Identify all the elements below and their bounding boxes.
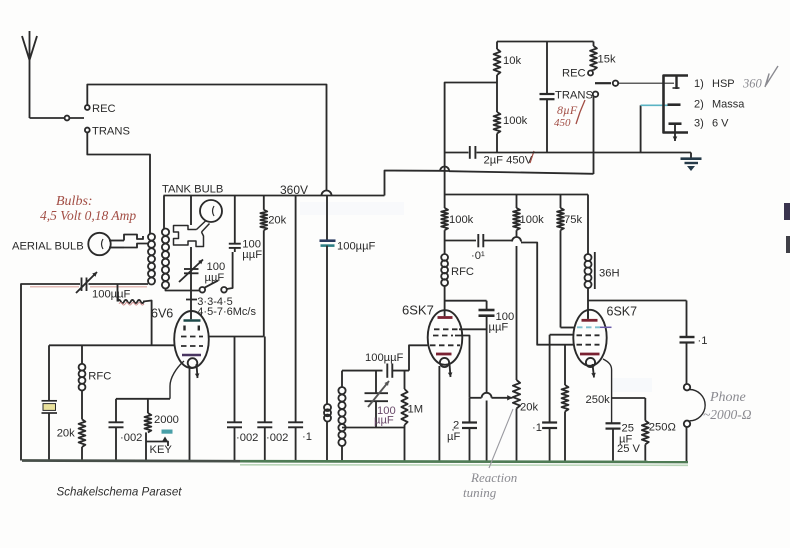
svg-text:REC: REC <box>562 68 586 80</box>
net RX rail <box>445 153 588 209</box>
connector pin 2 <box>668 103 681 106</box>
capacitor .1 osc <box>288 196 312 461</box>
wire screen line 6V6 <box>209 336 264 338</box>
svg-text:REC: REC <box>92 103 116 115</box>
wire 6SK7b cathode <box>603 359 612 423</box>
svg-text:AERIAL BULB: AERIAL BULB <box>12 241 84 253</box>
wire grid top <box>342 370 383 372</box>
junction hump <box>440 167 449 172</box>
svg-text:TRANS: TRANS <box>555 90 593 102</box>
tank coil primary <box>148 234 155 285</box>
edge mark 1 <box>784 203 790 220</box>
svg-text:4,5 Volt 0,18 Amp: 4,5 Volt 0,18 Amp <box>40 208 136 223</box>
resistor 100k det <box>441 208 473 241</box>
svg-text:Bulbs:: Bulbs: <box>56 194 93 209</box>
capacitor .01 coupling <box>445 234 512 262</box>
svg-text:RFC: RFC <box>88 371 111 383</box>
tube 6SK7 second <box>573 305 637 366</box>
6SK7a plate <box>438 310 453 318</box>
aerial bulb holder <box>109 235 148 248</box>
svg-text:75k: 75k <box>564 214 582 226</box>
tank bulb <box>200 200 222 222</box>
edge mark 2 <box>786 236 790 253</box>
resistor 250k <box>562 345 611 461</box>
inductor RFC osc <box>79 345 112 419</box>
6SK7b cathode <box>580 354 600 378</box>
resistor 2000 <box>145 399 179 433</box>
capacitor .1 af <box>532 422 557 461</box>
tank coil secondary <box>162 229 169 289</box>
svg-text:·002: ·002 <box>120 432 142 444</box>
handwritten reaction tuning <box>463 409 517 500</box>
wire massa branch <box>641 105 668 152</box>
wire cathode net <box>116 398 170 400</box>
svg-text:36H: 36H <box>599 268 620 280</box>
wire rail step <box>385 171 441 196</box>
key jack <box>146 430 173 461</box>
switch pole contact <box>65 116 70 121</box>
svg-text:450: 450 <box>554 117 571 129</box>
handwritten phone <box>703 390 752 422</box>
svg-text:·1: ·1 <box>698 335 708 347</box>
svg-text:·0¹: ·0¹ <box>471 250 485 262</box>
6V6 heater arrow <box>195 364 200 378</box>
svg-text:6 V: 6 V <box>712 118 729 130</box>
wire bus left <box>445 152 469 154</box>
inductor grid coil <box>338 371 345 461</box>
wire screen to regen <box>455 336 470 398</box>
phone jack <box>684 384 705 462</box>
connector socket <box>664 76 689 133</box>
svg-text:4·5-7·6Mc/s: 4·5-7·6Mc/s <box>197 306 256 318</box>
wire squiggle junction <box>117 284 119 302</box>
capacitor 100uuF filter <box>320 196 376 405</box>
net 360V rail <box>164 183 385 197</box>
svg-text:15k: 15k <box>598 54 616 66</box>
svg-text:10k: 10k <box>503 55 521 67</box>
inductor tickler <box>324 404 331 461</box>
capacitor 100uuF grid <box>365 352 409 378</box>
band switch <box>200 252 233 293</box>
svg-text:20k: 20k <box>520 402 538 414</box>
wash 1 <box>300 202 404 215</box>
wire rail left end <box>163 196 165 230</box>
svg-text:Phone: Phone <box>709 390 746 405</box>
svg-text:·002: ·002 <box>266 432 288 444</box>
6V6 cathode <box>182 355 201 368</box>
svg-text:100k: 100k <box>449 214 474 226</box>
wire coil to band switch <box>166 289 200 291</box>
label band frequencies <box>197 296 256 318</box>
wire tank bottom <box>342 428 405 461</box>
svg-text:20k: 20k <box>57 428 75 440</box>
resistor 15k <box>590 42 616 71</box>
resistor 20k grid <box>57 419 86 460</box>
wire bus right <box>477 152 692 154</box>
handwritten 360V <box>742 66 778 91</box>
svg-text:̦2: ̦2 <box>452 420 459 432</box>
wire grid2 row2 <box>550 335 574 423</box>
svg-text:3): 3) <box>694 118 704 130</box>
svg-text:KEY: KEY <box>150 444 173 456</box>
6SK7b screen row <box>577 326 612 328</box>
6V6 beam plates <box>185 326 199 331</box>
svg-text:250Ω: 250Ω <box>649 422 676 434</box>
wire REC to top rail <box>87 85 326 191</box>
6SK7b grid rows <box>577 335 600 344</box>
capacitor .1 output <box>680 335 708 384</box>
wire antenna to switch pole <box>30 117 85 119</box>
junction hump 100k2 <box>512 237 521 242</box>
svg-text:HSP: HSP <box>712 78 735 90</box>
tank bulb holder <box>174 221 210 247</box>
capacitor 2uF <box>470 146 534 167</box>
capacitor .002 screen b <box>257 337 288 461</box>
6V6 plate <box>184 319 201 322</box>
variable capacitor 100uuF antenna <box>76 272 131 301</box>
inductor 36H <box>585 195 620 319</box>
capacitor 8uF <box>540 42 586 153</box>
aerial bulb <box>88 233 110 255</box>
wire regen wiper <box>470 393 513 401</box>
label pin3 <box>694 118 729 130</box>
svg-text:100µµF: 100µµF <box>337 241 376 253</box>
capacitor .002 screen a <box>227 337 258 461</box>
svg-text:~2000­-Ω: ~2000­-Ω <box>703 407 752 422</box>
inductor RFC det <box>441 241 474 311</box>
connector pin 1 <box>673 76 680 90</box>
svg-text:100µµF: 100µµF <box>365 352 404 364</box>
crystal <box>42 345 58 460</box>
node REC terminal <box>85 103 116 115</box>
svg-text:2000: 2000 <box>154 414 179 426</box>
capacitor 25uF <box>606 423 641 461</box>
svg-text:·002: ·002 <box>236 432 258 444</box>
svg-text:·1: ·1 <box>302 431 312 443</box>
resistor 20k osc <box>260 196 286 337</box>
resistor 1M <box>401 371 423 428</box>
svg-text:100k: 100k <box>520 214 545 226</box>
switch arm power <box>595 81 674 86</box>
wire 10k junction <box>445 75 497 153</box>
wire suppressor <box>459 328 487 330</box>
svg-text:6SK7: 6SK7 <box>607 305 638 319</box>
label pin1 <box>694 78 735 90</box>
resistor 10k <box>494 42 522 76</box>
wire left edge <box>21 284 80 461</box>
svg-text:8µF: 8µF <box>557 103 578 117</box>
svg-text:360: 360 <box>742 77 763 91</box>
tube 6SK7 first <box>402 303 462 365</box>
wire output line <box>588 301 687 337</box>
svg-text:TANK BULB: TANK BULB <box>162 184 223 196</box>
wire plate bypass <box>445 300 487 302</box>
node REC power <box>562 68 594 80</box>
svg-text:tuning: tuning <box>463 485 497 500</box>
node TRANS terminal <box>85 126 130 138</box>
resistor 250 ohm <box>612 398 676 461</box>
svg-text:20k: 20k <box>268 215 286 227</box>
variable capacitor tank <box>179 260 225 300</box>
resistor 75k <box>557 195 582 328</box>
capacitor 100uuF plate <box>479 301 515 461</box>
svg-text:6SK7: 6SK7 <box>402 303 434 318</box>
label pin2 <box>694 99 745 111</box>
wire 6SK7a cathode ground <box>438 366 440 461</box>
svg-text:360V: 360V <box>280 183 308 197</box>
svg-text:µµF: µµF <box>374 415 394 427</box>
svg-text:µµF: µµF <box>489 322 509 334</box>
svg-text:µF: µF <box>447 431 460 443</box>
svg-text:100µµF: 100µµF <box>92 289 131 301</box>
wire grid to tube1 <box>409 345 428 370</box>
svg-text:TRANS: TRANS <box>92 126 130 138</box>
svg-text:2): 2) <box>694 99 704 111</box>
svg-text:µµF: µµF <box>242 249 262 261</box>
junction 360V <box>322 191 332 196</box>
capacitor 100uuF tank <box>229 196 262 262</box>
svg-text:100k: 100k <box>503 115 528 127</box>
capacitor .2uF <box>447 398 477 461</box>
svg-text:6V6: 6V6 <box>151 307 173 321</box>
svg-text:2µF 450V: 2µF 450V <box>484 155 533 167</box>
node TRANS power <box>555 90 598 175</box>
wire af coupling <box>521 243 574 345</box>
wire TRANS to tank coil <box>87 133 150 234</box>
svg-text:Schakelschema Paraset: Schakelschema Paraset <box>57 486 183 499</box>
wire 6V6 heater to rail <box>189 368 191 461</box>
wire cap to tank coil <box>30 284 148 287</box>
grid squiggle <box>118 300 152 345</box>
6V6 control grid <box>181 345 203 347</box>
svg-text:RFC: RFC <box>451 266 474 278</box>
caption <box>57 486 183 499</box>
svg-text:Reaction: Reaction <box>470 470 517 485</box>
ground <box>681 159 702 171</box>
6SK7a grid rows <box>430 329 460 345</box>
resistor 100k bleeder <box>494 112 528 153</box>
net ground rail <box>22 461 688 466</box>
svg-text:1): 1) <box>694 78 704 90</box>
svg-text:25 V: 25 V <box>617 443 641 455</box>
svg-text:250k: 250k <box>586 394 611 406</box>
label tank bulb <box>162 184 223 196</box>
wire 6V6 cathode lead <box>170 361 184 399</box>
label aerial bulb <box>12 241 84 253</box>
wire top rail power <box>497 41 594 43</box>
tube 6V6 <box>151 307 209 369</box>
handwritten bulbs note <box>40 194 136 223</box>
6SK7a cathode <box>436 354 452 377</box>
wash 2 <box>612 378 652 392</box>
capacitor .002 cathode <box>109 399 143 461</box>
connector pin 3 <box>669 124 682 141</box>
6V6 screen grid <box>181 336 203 338</box>
wire 6V6 grid line <box>49 344 175 346</box>
wire 6V6 plate line <box>190 196 192 320</box>
ground stub <box>690 153 692 158</box>
potentiometer 20k <box>513 246 539 461</box>
antenna <box>22 31 37 118</box>
wire step line <box>440 171 594 174</box>
variable capacitor detector tuning <box>365 371 396 428</box>
svg-text:1M: 1M <box>408 404 424 416</box>
6SK7b plate <box>582 310 598 321</box>
resistor 100k af <box>513 195 544 238</box>
svg-text:·1: ·1 <box>532 422 542 434</box>
svg-text:Massa: Massa <box>712 99 745 111</box>
